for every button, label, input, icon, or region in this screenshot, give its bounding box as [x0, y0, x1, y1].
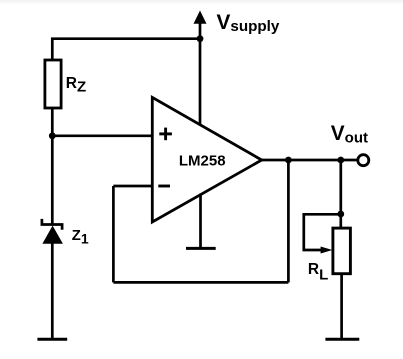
op-amp U1 LM258: [152, 97, 261, 222]
node junction supply: [197, 35, 204, 42]
wire + input: [52, 134, 152, 137]
svg-text:Z1: Z1: [72, 228, 89, 246]
node junction wiper: [337, 211, 344, 218]
wire feedback right: [287, 160, 290, 282]
power Vsupply arrow: [194, 11, 207, 39]
zener diode Z1: [42, 219, 63, 244]
wire feedback bottom: [113, 281, 288, 284]
wire load bottom: [340, 274, 343, 340]
wiper arrowhead: [321, 247, 333, 254]
wire left rail middle: [51, 108, 54, 226]
label plus input: [159, 128, 172, 141]
ground right: [325, 338, 359, 341]
ground op-amp: [186, 194, 216, 249]
wire V supply branch: [199, 39, 202, 125]
svg-text:LM258: LM258: [179, 152, 226, 169]
terminal Vout: [358, 155, 369, 166]
node junction feedback: [285, 157, 292, 164]
wire load top: [339, 160, 342, 228]
wire output: [262, 159, 357, 162]
wire top rail: [52, 39, 200, 61]
wire feedback left: [112, 186, 115, 282]
resistor RL: [333, 228, 351, 274]
node junction load branch: [337, 157, 344, 164]
resistor RZ: [45, 60, 61, 108]
node junction noninverting input: [49, 132, 56, 139]
wire minus input: [113, 185, 152, 188]
wire left rail lower: [51, 243, 54, 339]
ground left: [37, 338, 67, 341]
wire wiper: [304, 214, 341, 250]
label minus input: [158, 185, 170, 188]
